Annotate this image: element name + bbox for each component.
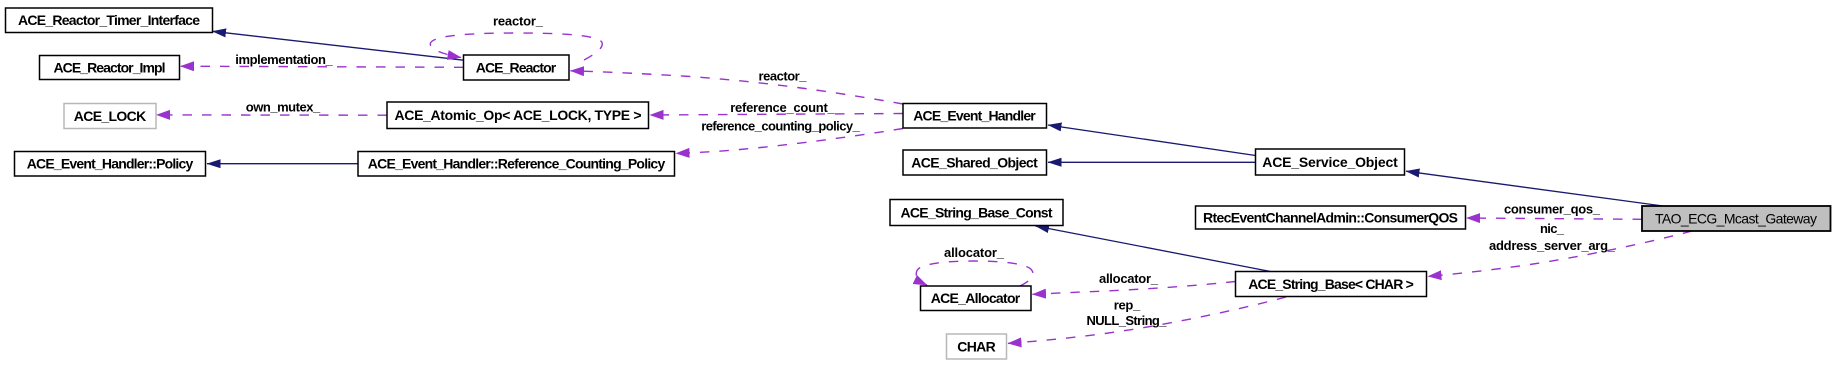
svg-text:ACE_String_Base_Const: ACE_String_Base_Const <box>901 204 1053 220</box>
class box ACE_Shared_Object <box>903 150 1047 175</box>
class box CHAR <box>947 334 1007 359</box>
svg-text:TAO_ECG_Mcast_Gateway: TAO_ECG_Mcast_Gateway <box>1655 210 1817 226</box>
usage edge ACE_String_Base&lt;CHAR&gt; -> CHAR rep_ NULL_String_ <box>1008 297 1286 343</box>
inheritance arrow ACE_Service_Object -> ACE_Event_Handler <box>1048 125 1256 156</box>
class box ACE_Reactor_Impl <box>40 56 180 80</box>
usage edge TAO_ECG_Mcast_Gateway -> RtecEventChannelAdmin::ConsumerQOS consumer_qos_ <box>1467 218 1643 219</box>
svg-text:ACE_Event_Handler::Policy: ACE_Event_Handler::Policy <box>27 156 194 172</box>
usage edge self-loop reactor_ on ACE_Reactor <box>430 33 602 60</box>
svg-text:ACE_Event_Handler::Reference_C: ACE_Event_Handler::Reference_Counting_Po… <box>368 156 666 172</box>
class box ACE_Service_Object <box>1256 149 1405 175</box>
svg-text:ACE_Reactor_Timer_Interface: ACE_Reactor_Timer_Interface <box>18 12 200 28</box>
usage edge ACE_Atomic_Op -> ACE_LOCK own_mutex_ <box>157 114 388 116</box>
class box TAO_ECG_Mcast_Gateway (current class, gray) <box>1642 206 1831 231</box>
class box ACE_Reactor <box>464 55 570 80</box>
svg-text:ACE_Reactor: ACE_Reactor <box>476 59 557 75</box>
usage edge TAO_ECG_Mcast_Gateway -> ACE_String_Base&lt;CHAR&gt; nic_ address_server_arg_ <box>1428 231 1692 276</box>
class box RtecEventChannelAdmin::ConsumerQOS <box>1196 206 1466 229</box>
svg-text:consumer_qos_: consumer_qos_ <box>1504 202 1601 217</box>
inheritance arrow Reference_Counting_Policy -> Policy <box>207 163 358 165</box>
svg-text:ACE_String_Base< CHAR >: ACE_String_Base< CHAR > <box>1248 276 1414 292</box>
usage edge ACE_Reactor -> ACE_Reactor_Impl implementation_ <box>181 66 464 67</box>
class box ACE_Reactor_Timer_Interface <box>6 8 213 33</box>
class box ACE_Event_Handler::Reference_Counting_Policy <box>358 152 675 177</box>
svg-text:rep_: rep_ <box>1114 298 1141 313</box>
inheritance arrow TAO_ECG_Mcast_Gateway -> ACE_Service_Object <box>1406 171 1663 206</box>
class box ACE_String_Base&lt; CHAR &gt; <box>1236 272 1427 297</box>
svg-text:address_server_arg_: address_server_arg_ <box>1489 238 1616 253</box>
class box ACE_Event_Handler <box>903 104 1047 129</box>
svg-text:ACE_Allocator: ACE_Allocator <box>931 290 1021 306</box>
svg-text:ACE_Event_Handler: ACE_Event_Handler <box>913 108 1036 124</box>
usage edge ACE_Event_Handler -> ACE_Reactor reactor_ <box>571 71 904 104</box>
svg-text:implementation_: implementation_ <box>235 52 333 67</box>
class box ACE_Atomic_Op&lt; ACE_LOCK, TYPE &gt; <box>387 102 649 129</box>
svg-text:allocator_: allocator_ <box>1099 271 1159 286</box>
svg-text:ACE_Shared_Object: ACE_Shared_Object <box>911 154 1038 170</box>
inheritance arrow ACE_String_Base&lt;CHAR&gt; -> ACE_String_Base_Const <box>1036 226 1271 272</box>
svg-text:reactor_: reactor_ <box>759 69 808 84</box>
svg-text:NULL_String_: NULL_String_ <box>1087 313 1168 328</box>
inheritance arrow ACE_Service_Object -> ACE_Shared_Object <box>1048 161 1256 163</box>
svg-text:nic_: nic_ <box>1540 221 1565 236</box>
svg-text:ACE_Reactor_Impl: ACE_Reactor_Impl <box>54 59 166 75</box>
svg-text:ACE_Atomic_Op< ACE_LOCK, TYPE: ACE_Atomic_Op< ACE_LOCK, TYPE > <box>395 107 642 123</box>
svg-text:reference_count_: reference_count_ <box>730 100 835 115</box>
class box ACE_Event_Handler::Policy <box>15 152 206 177</box>
svg-text:reference_counting_policy_: reference_counting_policy_ <box>701 118 860 133</box>
usage edge ACE_Event_Handler -> ACE_Atomic_Op reference_count_ <box>650 114 903 116</box>
class box ACE_String_Base_Const <box>890 200 1063 226</box>
usage edge ACE_Event_Handler -> Reference_Counting_Policy reference_counting_policy_ <box>676 129 903 154</box>
class box ACE_LOCK <box>64 104 156 129</box>
svg-text:ACE_Service_Object: ACE_Service_Object <box>1262 154 1398 170</box>
inheritance arrow ACE_Reactor -> ACE_Reactor_Timer_Interface <box>213 31 464 60</box>
svg-text:RtecEventChannelAdmin::Consume: RtecEventChannelAdmin::ConsumerQOS <box>1203 209 1458 225</box>
usage edge ACE_String_Base&lt;CHAR&gt; -> ACE_Allocator allocator_ <box>1033 282 1236 295</box>
svg-text:ACE_LOCK: ACE_LOCK <box>74 108 147 124</box>
svg-text:allocator_: allocator_ <box>944 245 1005 260</box>
usage edge self-loop allocator_ on ACE_Allocator <box>916 261 1033 286</box>
svg-text:own_mutex_: own_mutex_ <box>246 99 321 114</box>
class box ACE_Allocator <box>921 286 1032 311</box>
svg-text:reactor_: reactor_ <box>493 14 544 29</box>
svg-text:CHAR: CHAR <box>957 338 996 354</box>
